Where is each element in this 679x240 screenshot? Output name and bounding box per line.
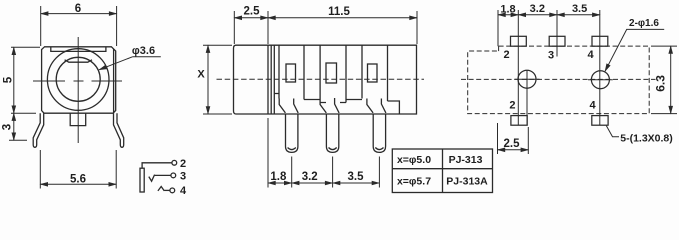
circle 2 crosshair horizontal [588,79,613,81]
svg-text:4: 4 [589,100,596,112]
pin 3 neck jog [367,99,386,113]
svg-text:5.6: 5.6 [70,174,86,186]
svg-text:4: 4 [180,185,187,194]
svg-text:6.3: 6.3 [654,75,668,92]
svg-text:2: 2 [509,100,515,112]
top pad 4 [592,36,608,46]
top pad 3 [549,36,565,46]
dim 5 line [13,47,15,113]
svg-text:PJ-313: PJ-313 [449,154,483,166]
dim 6.3 ext lines [651,46,677,114]
phi3.6 leader [99,57,161,70]
dim 11.5 ext line right [268,11,417,44]
svg-text:3.5: 3.5 [572,3,587,15]
mounting hole circle 1 [518,70,536,88]
dim 2.5 bottom ext lines [498,123,529,154]
svg-text:3.5: 3.5 [348,171,365,183]
svg-text:4: 4 [587,49,594,61]
svg-text:1.8: 1.8 [500,3,515,15]
terminal 4 circle [170,188,175,193]
dashed horizontal centerline [461,78,656,80]
terminal tab 1 [279,45,304,99]
mounting hole circle 2 [591,71,609,89]
svg-text:2.5: 2.5 [244,6,261,18]
svg-text:3.2: 3.2 [530,3,545,15]
snout end wall [267,45,269,114]
terminal 2 circle [172,160,177,165]
top recess [51,47,106,52]
bottom pad 4 [592,116,608,126]
svg-text:3: 3 [548,49,554,61]
svg-text:3.2: 3.2 [302,171,318,183]
pin 2 neck jog [320,98,339,113]
tip line + terminal 2 wire [142,163,172,168]
dim 5 ext lines [11,47,40,113]
leader 2-phi1.6 [605,29,664,71]
dim 6.3 line [670,46,672,114]
pin 3 tip arc [375,148,383,150]
dashed centerline [217,78,425,80]
dim X line [207,45,209,114]
bottom pad 2 [511,116,527,126]
dims 1.8 3.2 3.5 ext lines [268,118,379,188]
dim 5.6 line [40,183,116,185]
svg-text:PJ-313A: PJ-313A [446,176,488,188]
left mounting leg [33,113,44,147]
bottom tab [70,113,86,125]
dim 2.5 ext line left [234,11,268,44]
internal ledges [274,94,362,100]
svg-text:2: 2 [180,158,186,170]
dim 5.6 ext lines [40,150,116,189]
dashed component outline [461,46,656,114]
side body outline [234,45,417,114]
svg-text:3: 3 [180,170,186,182]
pin 1 [286,114,298,152]
top dim lines [498,14,518,16]
key notch trapezoid [65,60,92,62]
terminal 3 wire [155,174,171,176]
ring contact check [149,175,155,182]
horizontal centerline [33,80,122,82]
svg-text:x=φ5.7: x=φ5.7 [397,176,431,188]
dim 6 line [41,13,117,15]
body housing front [42,47,116,113]
right mounting leg [114,113,124,147]
svg-text:2.5: 2.5 [504,138,521,150]
terminal 3 circle [171,173,176,178]
leader 5-(1.3X0.8) [606,126,619,137]
inner circle (hole) [56,57,100,101]
svg-text:3: 3 [2,124,14,130]
vertical centerline [77,37,79,143]
terminal 4 wire [164,189,170,191]
sleeve contact hump [158,187,164,191]
tab 1 hole [286,64,296,82]
dim 2.5 line [234,17,268,19]
right internal step [388,101,400,114]
dim 11.5 line [268,17,417,19]
svg-text:φ3.6: φ3.6 [132,45,155,57]
svg-text:2: 2 [503,49,509,61]
inner right edge line [113,49,115,113]
plug body rect [140,168,144,192]
svg-text:X: X [197,69,205,81]
svg-text:5: 5 [3,76,15,83]
tab 3 hole [368,64,378,82]
body front wall double line [270,45,272,114]
tab 2 hole [326,63,337,83]
top pad 2 [511,36,527,46]
svg-text:1.8: 1.8 [270,171,287,183]
terminal tab 2 [320,45,346,102]
pin 2 [326,114,338,152]
svg-text:5-(1.3X0.8): 5-(1.3X0.8) [620,132,673,144]
svg-text:6: 6 [75,3,81,15]
pin 1 tip arc [288,148,296,150]
dim 3 line [13,113,15,140]
top dims ext/pin lines [498,10,600,125]
dim 3 ext line [9,113,27,140]
circle 1 crosshairs [515,71,540,126]
dim X ext lines [203,45,232,114]
svg-text:11.5: 11.5 [328,6,350,18]
dim 2.5 bottom line [498,149,529,151]
pin 3 [373,114,385,152]
dim lines [268,182,292,184]
svg-text:2-φ1.6: 2-φ1.6 [629,18,659,29]
pin 2 tip arc [329,148,337,150]
terminal tab 3 [362,45,388,101]
svg-text:x=φ5.0: x=φ5.0 [397,154,431,166]
pin 1 neck jog [279,99,298,113]
outer circle (barrel) [47,49,109,111]
dim 6 ext lines [41,6,117,46]
